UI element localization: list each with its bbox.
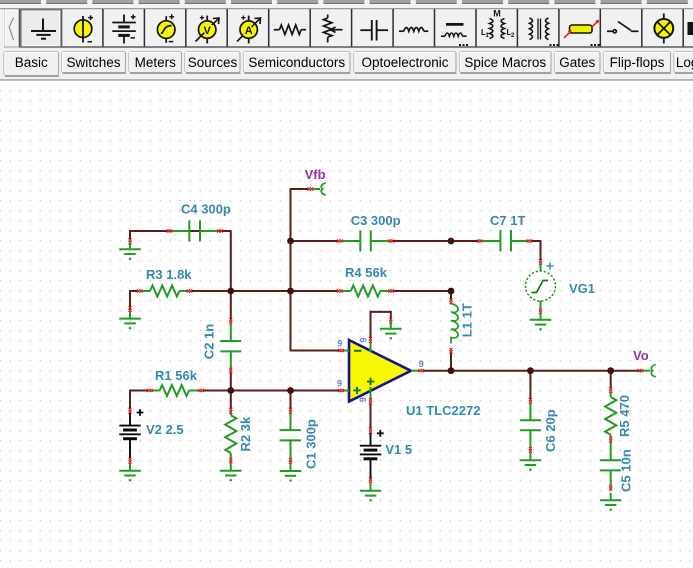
resistor R3 (142, 290, 187, 292)
svg-text:Vo: Vo (633, 348, 649, 363)
svg-text:M: M (493, 9, 501, 19)
wire op-amp top supply to ground (370, 311, 372, 338)
junction node A left (227, 288, 234, 295)
svg-text:L1 1T: L1 1T (460, 303, 475, 337)
tab: Flip-flops (604, 52, 672, 74)
wire inverting input feed (290, 291, 292, 352)
wire R1 row (129, 390, 131, 410)
ground op-amp top supply (389, 318, 392, 324)
node label Vo terminal (638, 369, 644, 372)
svg-text:C7 1T: C7 1T (490, 213, 525, 228)
wire R3 row left corner (129, 290, 131, 310)
tab: Gates (555, 52, 601, 74)
capacitor C1 (289, 408, 292, 414)
resistor R2 (229, 408, 232, 414)
pressed ground button frame (21, 10, 61, 47)
resistor R1 (152, 390, 199, 392)
svg-text:C3 300p: C3 300p (351, 213, 401, 228)
toolbar icon: voltage source (74, 15, 93, 42)
toolbar icon: potentiometer (324, 15, 343, 43)
wire C4 left ground drop (129, 230, 131, 240)
svg-text:9: 9 (358, 397, 368, 402)
junction node Vfb/C3 (287, 238, 294, 245)
voltage source V1 (369, 428, 372, 434)
ground VG1 (539, 308, 542, 314)
ground R2 (220, 463, 242, 480)
capacitor C3 (342, 231, 389, 252)
ground C4-left (129, 238, 132, 244)
svg-text:Spice Macros: Spice Macros (464, 55, 546, 70)
svg-text:9: 9 (358, 338, 368, 343)
svg-text:Semiconductors: Semiconductors (248, 55, 345, 70)
tab: Optoelectronic (354, 52, 457, 74)
svg-text:R3 1.8k: R3 1.8k (146, 267, 192, 282)
svg-text:U1 TLC2272: U1 TLC2272 (406, 403, 480, 418)
tab: Spice Macros (460, 52, 552, 74)
toolbar icon: inductor (399, 28, 428, 32)
wire C3 rail right to L1 top node (392, 240, 452, 242)
wire C4 top left corner (129, 230, 232, 232)
capacitor C2 (229, 318, 232, 324)
toolbar icon: ammeter (237, 16, 261, 44)
op-amp U1 output lead (411, 370, 419, 372)
wire R3 to node A (191, 290, 292, 292)
svg-text:C5 10n: C5 10n (619, 449, 634, 492)
op-amp U1 top supply pin (370, 342, 372, 353)
toolbar icon: capacitor (360, 20, 388, 41)
wire node A to R4 (291, 290, 339, 292)
resistor R4 (342, 290, 389, 292)
wire output (423, 370, 642, 372)
svg-text:R5 470: R5 470 (617, 395, 632, 437)
toolbar icon: resistor (274, 25, 306, 35)
op-amp U1 minus mark (354, 350, 362, 352)
voltage source V2 (129, 408, 132, 414)
wire Vfb stub (290, 188, 292, 190)
toolbar icon: battery (112, 15, 136, 44)
wire C2 top feed (230, 291, 232, 319)
wire C4 right drop to node A (230, 231, 232, 291)
wire C3 rail left (291, 240, 339, 242)
capacitor C6 (529, 398, 532, 404)
wire op-amp bottom supply to V1 (370, 403, 372, 429)
tab: Basic (4, 52, 59, 77)
wire C2 bottom to node B (230, 372, 232, 392)
wire R4 to L1 column (392, 290, 453, 292)
svg-text:Flip-flops: Flip-flops (610, 55, 665, 70)
junction node C3/C7 (448, 238, 455, 245)
wire R1 to node B (203, 390, 292, 392)
svg-text:Optoelectronic: Optoelectronic (361, 55, 448, 70)
toolbar icon: switch (607, 22, 639, 33)
ground C6 (520, 453, 542, 470)
svg-text:V1 5: V1 5 (385, 442, 412, 457)
svg-text:A: A (245, 25, 253, 37)
svg-text:9: 9 (419, 359, 424, 369)
junction node A right (287, 288, 294, 295)
svg-text:Basic: Basic (15, 55, 48, 70)
node label Vfb terminal (308, 187, 314, 190)
op-amp U1 input leads (343, 350, 349, 352)
toolbar scroll-left button (5, 10, 20, 48)
wire R2 top feed (230, 391, 232, 409)
capacitor C4 (172, 221, 218, 242)
svg-text:V2 2.5: V2 2.5 (146, 422, 184, 437)
toolbar icon: inductor with core (441, 24, 467, 36)
op-amp U1 plus mark input (353, 387, 360, 394)
junction node out/C6 (527, 367, 534, 374)
toolbar button separators (20, 9, 683, 47)
wire C4 inner gap cover (168, 230, 169, 232)
svg-text:C4 300p: C4 300p (181, 202, 231, 217)
wire L1 column top (450, 291, 452, 300)
schematic top border (0, 79, 693, 81)
capacitor C7 (482, 230, 527, 251)
junction node R4/L1 (448, 288, 455, 295)
capacitor C5 (600, 442, 621, 486)
svg-text:R1 56k: R1 56k (155, 368, 198, 383)
toolbar icon: transformer (530, 18, 549, 40)
svg-text:C1 300p: C1 300p (304, 419, 319, 469)
junction node out/L1 (448, 367, 455, 374)
svg-text:Switches: Switches (66, 55, 120, 70)
ground C5 (600, 493, 622, 510)
svg-text:VG1: VG1 (569, 281, 595, 296)
tab: Semiconductors (244, 52, 351, 74)
toolbar icon: voltmeter (196, 16, 220, 44)
svg-text:Vfb: Vfb (305, 167, 326, 182)
toolbar icon: lamp (654, 14, 673, 44)
resistor R5 (609, 387, 612, 393)
tab: Logic ICs (674, 52, 693, 74)
svg-text:9: 9 (337, 379, 342, 389)
junction node out/R5 (607, 367, 614, 374)
ground V2 (119, 463, 141, 480)
toolbar icon: relay (564, 20, 599, 38)
svg-text:V: V (204, 25, 212, 37)
toolbar icon: coupled inductors (490, 19, 505, 39)
wire vertical feedback column x290 (290, 189, 292, 291)
wire C1 top feed (290, 391, 292, 410)
svg-text:9: 9 (337, 339, 342, 349)
junction node B1 (227, 387, 234, 394)
top partial toolbar strip (0, 0, 693, 8)
svg-text:C6 20p: C6 20p (543, 409, 558, 452)
ground C1 (280, 464, 302, 481)
op-amp U1 plus mark supply (367, 378, 374, 385)
svg-text:C2 1n: C2 1n (202, 324, 217, 359)
tab: Sources (185, 52, 241, 74)
ground V1 (360, 483, 382, 500)
voltage generator VG1 (539, 259, 542, 265)
svg-text:R4 56k: R4 56k (345, 265, 388, 280)
svg-text:Sources: Sources (188, 55, 238, 70)
toolbar partial rightmost icon (688, 22, 693, 35)
ground R3-left (129, 306, 132, 312)
component toolbar band (0, 8, 693, 48)
svg-text:Logic ICs: Logic ICs (676, 55, 693, 70)
svg-text:Gates: Gates (559, 55, 595, 70)
tab: Meters (129, 52, 182, 74)
tab bar background (0, 48, 693, 80)
op-amp U1 bottom supply pin (370, 387, 372, 400)
wire C6 drop (529, 371, 531, 400)
tab: Switches (62, 52, 127, 74)
wire node B to op-amp +in (291, 390, 340, 392)
wire R5 drop (610, 371, 612, 389)
inductor L1 (450, 299, 453, 305)
wire L1 column bottom (450, 352, 452, 372)
junction node B2 (287, 387, 294, 394)
wire C7 feed (451, 240, 478, 242)
op-amp U1 triangle (349, 340, 411, 402)
toolbar icon: voltage generator (157, 14, 175, 43)
wire C7 to VG1 corner (532, 240, 542, 242)
svg-text:Meters: Meters (135, 55, 177, 70)
toolbar icon: ground (31, 19, 56, 39)
svg-text:R2 3k: R2 3k (238, 416, 253, 451)
